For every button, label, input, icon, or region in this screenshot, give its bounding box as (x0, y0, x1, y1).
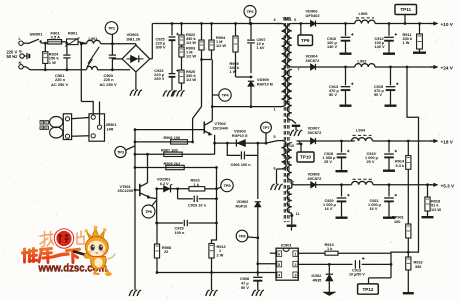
svg-text:R901: R901 (68, 31, 78, 36)
svg-text:25 V: 25 V (367, 160, 375, 164)
svg-text:R914: R914 (395, 160, 405, 164)
svg-text:R907 100: R907 100 (161, 149, 178, 153)
svg-text:1/2 W: 1/2 W (216, 44, 226, 48)
svg-text:3: 3 (295, 273, 297, 277)
svg-text:50 V: 50 V (329, 93, 337, 97)
svg-text:16 V: 16 V (370, 207, 378, 211)
svg-text:TP9: TP9 (301, 38, 310, 43)
svg-text:TP12: TP12 (362, 287, 373, 292)
svg-text:11: 11 (296, 212, 300, 216)
svg-text:1/2 W: 1/2 W (186, 54, 196, 58)
svg-text:14R: 14R (107, 127, 114, 131)
svg-text:+24 V: +24 V (441, 65, 454, 70)
svg-text:RGP10 G: RGP10 G (232, 134, 248, 138)
svg-text:VT902: VT902 (215, 122, 226, 126)
svg-text:7: 7 (298, 68, 300, 72)
svg-text:TP7: TP7 (263, 125, 271, 130)
svg-text:1 W: 1 W (49, 60, 56, 65)
svg-text:AC 250 V: AC 250 V (51, 82, 68, 87)
svg-text:30C872: 30C872 (308, 176, 323, 181)
svg-text:30C872: 30C872 (308, 130, 323, 135)
svg-text:2: 2 (295, 263, 297, 267)
svg-text:5.3 k: 5.3 k (396, 164, 405, 168)
svg-text:3.5 A: 3.5 A (51, 35, 61, 40)
svg-text:AC 250 V: AC 250 V (100, 82, 117, 87)
svg-text:2SC3440: 2SC3440 (213, 126, 228, 130)
svg-text:TP6: TP6 (145, 209, 153, 214)
svg-text:1: 1 (274, 107, 276, 111)
svg-text:50 V: 50 V (241, 286, 249, 290)
svg-text:N: N (19, 60, 22, 65)
svg-text:R909 2k2: R909 2k2 (164, 162, 181, 166)
svg-text:1 k: 1 k (327, 247, 333, 251)
svg-text:3: 3 (274, 18, 276, 22)
svg-text:1 kV: 1 kV (257, 46, 265, 50)
svg-text:16 V: 16 V (325, 207, 333, 211)
svg-text:10: 10 (290, 144, 294, 148)
svg-text:TP8: TP8 (239, 233, 247, 238)
svg-text:G: G (19, 49, 22, 54)
svg-text:140 V: 140 V (327, 45, 337, 49)
svg-text:6: 6 (278, 252, 280, 256)
svg-text:30C872: 30C872 (306, 58, 321, 63)
svg-text:250 V: 250 V (154, 77, 164, 81)
svg-text:C906 100 n: C906 100 n (231, 163, 252, 167)
svg-text:1 W: 1 W (230, 70, 237, 74)
svg-text:+5.3 V: +5.3 V (441, 183, 456, 188)
svg-text:4N35: 4N35 (313, 279, 322, 283)
svg-text:TP10: TP10 (300, 155, 311, 160)
svg-text:10 µ/50 V: 10 µ/50 V (349, 273, 365, 277)
svg-text:UF5402: UF5402 (306, 13, 321, 18)
svg-text:1: 1 (295, 252, 297, 256)
svg-text:1 k: 1 k (194, 183, 200, 187)
svg-text:TP11: TP11 (400, 7, 411, 12)
svg-text:6.2 V: 6.2 V (160, 182, 169, 186)
svg-text:100: 100 (394, 220, 400, 224)
svg-text:6: 6 (274, 167, 276, 171)
svg-text:TP3: TP3 (117, 149, 125, 154)
svg-text:VT901: VT901 (120, 185, 132, 189)
svg-text:1/2 W: 1/2 W (186, 41, 196, 45)
svg-text:R906 100: R906 100 (164, 136, 181, 140)
svg-text:1/2 W: 1/2 W (186, 78, 196, 82)
svg-text:1/2 W: 1/2 W (431, 208, 441, 212)
svg-text:300 V: 300 V (156, 46, 166, 50)
svg-text:L901: L901 (89, 36, 99, 41)
svg-text:RGP10: RGP10 (236, 205, 248, 209)
svg-text:22: 22 (164, 250, 168, 254)
svg-text:RGP10 M: RGP10 M (257, 83, 273, 87)
svg-text:IC901: IC901 (281, 243, 293, 248)
svg-text:TP4: TP4 (222, 92, 230, 97)
svg-text:140 V: 140 V (375, 45, 385, 49)
svg-text:100 n: 100 n (175, 231, 185, 235)
svg-text:R916: R916 (414, 261, 423, 265)
svg-text:6: 6 (294, 18, 296, 22)
svg-text:L905: L905 (359, 11, 369, 16)
svg-text:TP2: TP2 (247, 9, 255, 14)
svg-text:TP5: TP5 (224, 183, 232, 188)
svg-text:330: 330 (415, 265, 421, 269)
svg-text:+18 V: +18 V (441, 140, 454, 145)
svg-text:C923 10 n: C923 10 n (188, 203, 207, 207)
svg-text:5: 5 (278, 263, 280, 267)
svg-text:5: 5 (274, 135, 276, 139)
svg-text:RP901: RP901 (392, 216, 405, 220)
svg-text:50 V: 50 V (374, 93, 382, 97)
svg-text:SW901: SW901 (30, 32, 44, 37)
svg-text:2SC2235: 2SC2235 (118, 189, 133, 193)
svg-text:DB1.26: DB1.26 (127, 37, 141, 42)
svg-text:25 V: 25 V (324, 160, 332, 164)
svg-text:50 Hz: 50 Hz (7, 54, 18, 59)
svg-text:2 W: 2 W (217, 253, 224, 257)
svg-text:TP1: TP1 (108, 25, 116, 30)
svg-text:L902: L902 (358, 58, 368, 63)
svg-text:+10 V: +10 V (441, 22, 454, 27)
svg-text:1 W: 1 W (403, 41, 410, 45)
